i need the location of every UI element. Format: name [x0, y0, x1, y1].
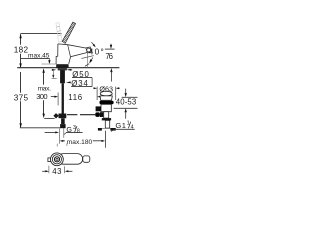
side view end block [83, 156, 90, 162]
D50 left arrow [52, 69, 54, 71]
phantom lever (light) [56, 23, 62, 42]
max.180 dimension [58, 129, 60, 144]
body internal edge [68, 45, 71, 57]
deck-bottom mini cluster [52, 71, 54, 76]
shank [60, 70, 65, 83]
top reference line [20, 33, 61, 35]
drain plug knob [100, 91, 112, 95]
tailpipe line [104, 131, 106, 148]
drain cap [100, 96, 112, 100]
svg-text:40°: 40° [89, 48, 104, 57]
40 deg arrow lower [91, 58, 93, 61]
fitting-bottom ext line [44, 117, 54, 119]
coupling nut [98, 128, 102, 131]
aerator at spout tip [86, 47, 92, 53]
spout-tip ext line [86, 53, 88, 68]
base dark [56, 64, 68, 68]
max.300 dimension [43, 72, 45, 115]
40 deg arrow upper [91, 42, 94, 45]
svg-text:40-53: 40-53 [116, 98, 136, 107]
phantom spout tilt line [81, 56, 93, 59]
base-bottom ext line [42, 63, 57, 65]
side view knob circles [51, 153, 64, 166]
label D50 [67, 69, 72, 71]
side view stub [48, 158, 53, 162]
pipe below fitting [61, 118, 65, 124]
max.45 arrow down [48, 58, 50, 60]
label G 3/8 [45, 132, 57, 134]
svg-text:375: 375 [14, 93, 29, 102]
o-ring [100, 101, 114, 104]
svg-text:300: 300 [36, 92, 47, 101]
rod ball [95, 112, 100, 117]
hose-end reference line [20, 127, 61, 129]
D63 dimension [96, 87, 98, 100]
side view stadium [58, 154, 83, 165]
arrow down at 182 bottom (deck) [19, 63, 21, 68]
small ticks [56, 144, 58, 147]
svg-text:G1: G1 [115, 121, 126, 130]
drain tube upper [104, 112, 109, 118]
dimension 182/375 vertical line [20, 34, 22, 127]
deck line [17, 67, 119, 69]
drain tube lower [105, 120, 109, 128]
svg-text:182: 182 [14, 45, 29, 54]
svg-text:76: 76 [105, 52, 113, 61]
43 dimension [48, 166, 50, 174]
pop-up rod [67, 114, 95, 116]
max.45 underline [21, 57, 50, 59]
arrow down at 375 bottom [20, 123, 22, 128]
rod extension below pipe [63, 128, 65, 138]
drain body [101, 104, 111, 111]
hose end nut [60, 124, 66, 128]
drain stub [96, 106, 101, 111]
bracket vertical [91, 78, 93, 87]
faucet body [56, 44, 87, 64]
76 dimension [105, 48, 115, 50]
drain nut [102, 118, 111, 120]
svg-text:116: 116 [68, 93, 82, 102]
svg-text:43: 43 [52, 167, 61, 176]
arrow up at 182 top [19, 34, 21, 39]
cross fitting [59, 114, 67, 119]
svg-text:max.180: max.180 [67, 139, 93, 146]
label D34 [66, 82, 71, 84]
116 dimension [51, 96, 55, 98]
40-53 dimension [122, 96, 138, 98]
svg-text:8: 8 [77, 128, 80, 134]
